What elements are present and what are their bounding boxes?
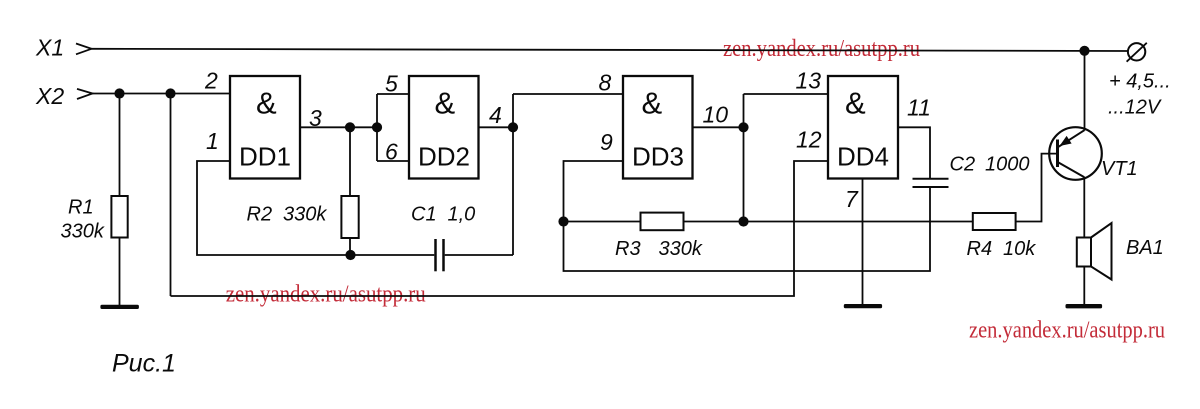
svg-text:1,0: 1,0 [448,204,476,226]
capacitor C2 [913,179,949,187]
ground (R1) [100,305,138,309]
junction dot DD2 output node [508,122,518,132]
transistor VT1 [1049,127,1102,180]
wire R1 branch vertical [119,94,121,197]
svg-text:10: 10 [703,102,729,128]
svg-text:12: 12 [796,127,822,153]
wire R4 to VT1 base [1016,154,1057,222]
svg-text:13: 13 [796,68,822,94]
wire X1 node to VT1 collector [1084,51,1086,131]
wire DD3 output [693,126,744,128]
resistor R2 [341,196,358,238]
svg-text:&: & [845,86,866,121]
svg-text:DD1: DD1 [239,141,291,171]
svg-text:8: 8 [599,70,612,96]
ground (DD4 pin7) [844,304,882,308]
svg-text:&: & [642,86,663,121]
wire node to DD3 pin8 [513,93,623,95]
svg-text:R3: R3 [615,238,641,260]
svg-text:4: 4 [489,102,502,128]
svg-text:&: & [256,86,277,121]
wire R2 bottom [349,238,351,255]
svg-text:1000: 1000 [985,154,1030,176]
ground (speaker) [1066,304,1103,308]
svg-text:330k: 330k [283,204,327,226]
svg-text:DD2: DD2 [418,141,470,171]
svg-text:10k: 10k [1003,238,1036,260]
wire DD4 pin7 to ground [862,179,864,306]
resistor R4 [973,213,1016,230]
svg-text:...12V: ...12V [1108,97,1162,119]
junction dot DD1out-R2 [345,122,355,132]
svg-text:7: 7 [845,186,859,212]
junction dot X2-branch [165,88,175,98]
svg-text:1: 1 [206,128,219,154]
svg-text:&: & [435,86,456,121]
svg-text:2: 2 [204,68,218,94]
junction dot R2-C1 [345,250,355,260]
junction dot R3 right node [738,216,748,226]
svg-text:C1: C1 [411,204,437,226]
svg-text:zen.yandex.ru/asutpp.ru: zen.yandex.ru/asutpp.ru [723,36,920,62]
wire DD2 output [479,126,514,128]
wire DD2 pin6 stub [377,160,409,162]
wire DD3 out node vertical [743,94,745,222]
wire VT1 emitter to speaker [1083,177,1085,238]
wire DD2 input tie vertical [376,94,378,161]
capacitor C1 [436,239,444,271]
svg-text:R4: R4 [967,238,993,260]
svg-text:BA1: BA1 [1126,237,1164,259]
junction dot X1-VT1 [1079,46,1089,56]
svg-text:C2: C2 [950,154,976,176]
wire DD3 pin9 stub [564,161,624,222]
svg-text:330k: 330k [61,221,105,243]
wire DD4 output [898,127,930,179]
svg-text:zen.yandex.ru/asutpp.ru: zen.yandex.ru/asutpp.ru [226,282,426,308]
gate DD1 [230,76,300,179]
wire bottom bus to DD4 pin12 [171,161,829,296]
input terminal X2 arrow [77,89,93,99]
svg-text:VT1: VT1 [1101,158,1138,180]
wire node to R4 [744,221,973,223]
wire R2 top [349,127,351,196]
wire node to DD4 pin13 [744,93,829,95]
svg-text:X1: X1 [35,35,64,61]
svg-text:330k: 330k [659,238,703,260]
wire DD2 pin5 stub [377,93,409,95]
wire DD2 out node vertical to C1 [512,94,514,255]
svg-text:DD3: DD3 [632,141,684,171]
wire DD1 output [300,126,377,128]
resistor R1 [111,196,127,238]
input terminal X1 arrow [76,44,92,55]
gate DD4 [828,76,898,179]
resistor R3 [641,213,684,231]
gate DD3 [623,76,693,179]
junction dot R3 left node [558,216,568,226]
wire R1 to ground [119,238,121,306]
wire R3 to node [684,221,744,223]
power terminal circle [1127,43,1147,62]
svg-text:DD4: DD4 [837,141,889,171]
svg-text:5: 5 [385,71,398,97]
wire C1 right to node [445,254,513,256]
wire DD1 pin1 feedback [197,161,434,255]
svg-text:X2: X2 [35,83,64,109]
svg-text:R2: R2 [247,204,273,226]
svg-text:+ 4,5...: + 4,5... [1109,71,1171,93]
svg-text:R1: R1 [68,197,94,219]
junction dot DD2 input tie [372,122,382,132]
wire R3 row left [564,221,641,223]
gate DD2 [409,76,479,179]
svg-text:11: 11 [907,95,931,121]
wire X2 second branch vertical [170,94,172,297]
svg-text:zen.yandex.ru/asutpp.ru: zen.yandex.ru/asutpp.ru [969,318,1165,344]
wire X1 bus [92,49,1129,51]
svg-text:3: 3 [309,105,322,131]
svg-text:Рис.1: Рис.1 [112,350,176,378]
wire speaker to ground [1083,267,1085,306]
wire X2 to DD1 pin2 [93,93,231,95]
speaker BA1 [1077,223,1112,280]
junction dot X2-R1 [114,88,124,98]
svg-text:6: 6 [385,139,398,165]
junction dot DD3 output node [738,122,748,132]
wire C2 bottom return [564,188,931,271]
svg-text:9: 9 [600,129,613,155]
